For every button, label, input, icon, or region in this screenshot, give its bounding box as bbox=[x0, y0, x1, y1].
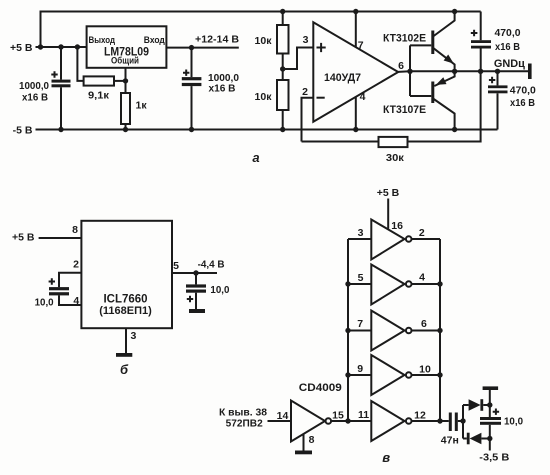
wire pin 8 bbox=[39, 237, 82, 239]
wire pin 7 supply bbox=[355, 12, 357, 48]
capacitor 10,0 (b right) bbox=[195, 273, 197, 284]
svg-text:10,0: 10,0 bbox=[504, 416, 523, 428]
node pin5 bbox=[193, 270, 198, 275]
svg-text:-4,4 В: -4,4 В bbox=[198, 258, 225, 270]
transistor KT3107E (PNP) bbox=[431, 82, 434, 104]
wire pin 4 supply bbox=[355, 97, 357, 130]
svg-text:4: 4 bbox=[419, 272, 425, 284]
svg-text:7: 7 bbox=[357, 318, 363, 330]
capacitor 470,0 lower bbox=[497, 71, 499, 85]
svg-text:б: б bbox=[120, 362, 129, 377]
wire pin 2 bbox=[59, 273, 81, 287]
capacitor 47n bbox=[440, 420, 449, 422]
wire +5V rail bbox=[36, 46, 87, 48]
node divider mid bbox=[280, 66, 285, 71]
wire pin 8 ground bbox=[303, 434, 305, 451]
terminal common bar top bbox=[483, 386, 499, 390]
svg-text:140УД7: 140УД7 bbox=[324, 72, 361, 84]
wire -5V rail bbox=[36, 129, 498, 131]
wire input bus bbox=[347, 239, 349, 421]
wire regulator input bbox=[166, 47, 238, 49]
svg-text:К выв. 38: К выв. 38 bbox=[219, 407, 267, 418]
svg-text:15: 15 bbox=[332, 410, 344, 422]
svg-text:GNDц: GNDц bbox=[494, 58, 525, 70]
wire top rail +5V to cap470 bbox=[41, 12, 481, 48]
svg-text:8: 8 bbox=[72, 224, 78, 236]
terminal GND bar bbox=[528, 64, 532, 80]
wire regulator common pin bbox=[125, 68, 127, 81]
inverter 5 (11-12) bbox=[348, 420, 371, 422]
svg-text:4: 4 bbox=[360, 91, 366, 103]
diode upper bbox=[463, 404, 469, 406]
svg-text:2: 2 bbox=[302, 86, 308, 98]
capacitor 470,0 upper bbox=[480, 12, 482, 41]
svg-text:572ПВ2: 572ПВ2 bbox=[226, 419, 263, 430]
wire feedback left bbox=[302, 141, 379, 143]
svg-text:10,0: 10,0 bbox=[35, 297, 54, 309]
svg-text:5: 5 bbox=[358, 272, 364, 284]
capacitor 1000,0 x16V (right) bbox=[191, 48, 193, 78]
svg-text:2: 2 bbox=[73, 259, 79, 271]
inverter 2 (5-4) bbox=[348, 283, 371, 285]
wire output node bbox=[398, 70, 529, 73]
svg-text:10,0: 10,0 bbox=[210, 284, 229, 296]
svg-text:30к: 30к bbox=[386, 152, 405, 164]
svg-text:в: в bbox=[382, 450, 390, 465]
wire output bus bbox=[439, 239, 441, 421]
wire output cap top bbox=[489, 390, 491, 417]
svg-text:+5 В: +5 В bbox=[377, 187, 400, 199]
ground bar bbox=[295, 451, 312, 455]
wire pin 3 bbox=[125, 328, 127, 353]
svg-text:-3,5 В: -3,5 В bbox=[479, 452, 509, 464]
wire pin 16 bbox=[387, 199, 389, 229]
resistor 1k bbox=[125, 81, 127, 93]
svg-text:Вход: Вход bbox=[144, 35, 165, 45]
diode lower bbox=[463, 438, 467, 440]
svg-text:(1168ЕП1): (1168ЕП1) bbox=[99, 305, 152, 317]
svg-text:Выход: Выход bbox=[89, 35, 116, 45]
svg-text:КТ3102Е: КТ3102Е bbox=[383, 32, 426, 44]
node C1 bottom bbox=[58, 127, 63, 132]
svg-text:-5 В: -5 В bbox=[13, 124, 33, 136]
svg-text:+12-14 В: +12-14 В bbox=[195, 34, 239, 46]
svg-text:х16 В: х16 В bbox=[495, 41, 520, 53]
input inverter (14-15) bbox=[268, 420, 292, 422]
svg-text:9,1к: 9,1к bbox=[88, 89, 110, 101]
resistor 10k lower bbox=[277, 80, 289, 110]
svg-text:10к: 10к bbox=[255, 91, 273, 103]
op-amp 140UD7 bbox=[313, 22, 398, 122]
svg-text:9: 9 bbox=[357, 363, 363, 375]
node divider top bbox=[280, 9, 285, 14]
svg-text:10к: 10к bbox=[255, 35, 273, 47]
svg-text:470,0: 470,0 bbox=[495, 27, 521, 39]
svg-text:1к: 1к bbox=[136, 100, 148, 112]
svg-text:х16 В: х16 В bbox=[510, 97, 535, 109]
wire pin 5 bbox=[172, 272, 217, 274]
regulator LM78L09 bbox=[87, 26, 167, 68]
svg-text:3: 3 bbox=[131, 330, 137, 342]
node 1k bottom bbox=[123, 127, 128, 132]
svg-text:Общий: Общий bbox=[111, 56, 139, 66]
svg-text:+5 В: +5 В bbox=[10, 42, 33, 54]
svg-text:3: 3 bbox=[303, 34, 309, 46]
capacitor 10,0 output bbox=[480, 417, 501, 420]
inverter 1 (3-2) bbox=[348, 238, 371, 240]
node pump input bbox=[460, 418, 465, 423]
node common pin bbox=[123, 78, 128, 83]
svg-text:CD4009: CD4009 bbox=[299, 382, 342, 394]
svg-text:470,0: 470,0 bbox=[510, 85, 536, 97]
capacitor 10,0 (b left) bbox=[49, 287, 69, 290]
svg-text:6: 6 bbox=[398, 60, 404, 72]
svg-text:16: 16 bbox=[391, 220, 403, 232]
inverter 3 (7-6) bbox=[348, 330, 371, 332]
svg-text:х16 В: х16 В bbox=[209, 83, 236, 95]
svg-text:4: 4 bbox=[73, 295, 79, 307]
wire divider tap to pin3 bbox=[283, 48, 314, 70]
svg-text:6: 6 bbox=[421, 318, 427, 330]
wire pin 2 to feedback bbox=[302, 98, 314, 142]
svg-text:12: 12 bbox=[414, 410, 426, 422]
wire pump node vertical bbox=[462, 405, 464, 439]
node C2 top bbox=[189, 45, 194, 50]
wire transistor bases bbox=[410, 45, 431, 96]
capacitor 1000,0 x16V (left) bbox=[60, 47, 62, 80]
terminal common bar bbox=[189, 309, 205, 313]
resistor 10k upper bbox=[282, 12, 284, 26]
resistor 30k bbox=[379, 137, 408, 147]
inverter 4 (9-10) bbox=[348, 374, 371, 376]
svg-text:3: 3 bbox=[358, 227, 364, 239]
svg-text:КТ3107Е: КТ3107Е bbox=[383, 104, 426, 116]
svg-text:14: 14 bbox=[277, 410, 289, 422]
ground bar bbox=[116, 353, 132, 357]
svg-text:а: а bbox=[252, 150, 259, 165]
IC ICL7660 bbox=[81, 221, 172, 328]
svg-text:11: 11 bbox=[358, 409, 369, 421]
transistor KT3102E (NPN) bbox=[431, 31, 434, 55]
node R 9.1k top bbox=[75, 44, 80, 49]
svg-text:2: 2 bbox=[419, 227, 425, 239]
node +5V corner bbox=[38, 44, 43, 49]
svg-text:х16 В: х16 В bbox=[22, 92, 48, 104]
svg-text:ICL7660: ICL7660 bbox=[104, 294, 148, 306]
svg-text:7: 7 bbox=[358, 40, 364, 52]
svg-text:5: 5 bbox=[173, 260, 179, 272]
svg-text:47н: 47н bbox=[441, 435, 459, 447]
svg-text:8: 8 bbox=[309, 434, 315, 446]
node C1 top bbox=[58, 44, 63, 49]
node C2 bottom bbox=[189, 127, 194, 132]
resistor 9,1k bbox=[77, 47, 83, 81]
node divider bottom bbox=[280, 127, 285, 132]
svg-text:1000,0: 1000,0 bbox=[19, 80, 49, 92]
wire feedback right bbox=[408, 71, 481, 141]
svg-text:+5 В: +5 В bbox=[12, 232, 35, 244]
svg-text:10: 10 bbox=[419, 364, 431, 376]
